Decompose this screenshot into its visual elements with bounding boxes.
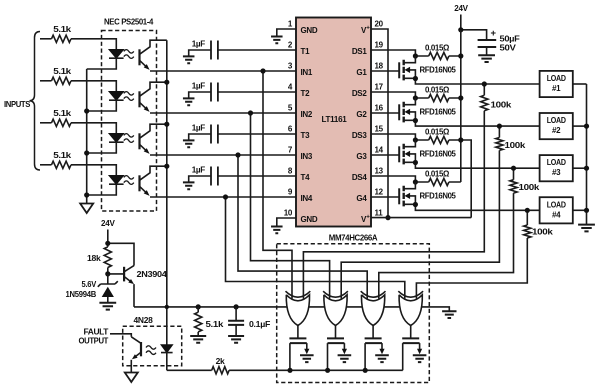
wire input 2 resistor to opto LED bbox=[71, 81, 116, 92]
resistor R14 100k feedback ch1 bbox=[303, 81, 511, 298]
optocoupler channel 1 phototransistor bbox=[140, 40, 297, 71]
svg-text:15: 15 bbox=[375, 125, 384, 134]
optocoupler channel 2 light arrows bbox=[124, 92, 134, 101]
wire fault output bbox=[110, 334, 141, 344]
wire load #2 to return rail bbox=[573, 125, 587, 127]
optocoupler box 4N28 bbox=[123, 326, 182, 366]
xnor gate U4a bbox=[286, 291, 311, 325]
svg-text:2N3904: 2N3904 bbox=[137, 269, 168, 279]
resistor R2 5.1k input bbox=[52, 66, 72, 85]
optocoupler channel 3 light arrows bbox=[124, 134, 134, 143]
svg-text:#3: #3 bbox=[552, 168, 561, 177]
node 24V top bbox=[454, 3, 468, 30]
transistor Q4 RFD16N05 ch3 bbox=[371, 140, 456, 164]
wire input 4 to resistor bbox=[40, 164, 52, 166]
NEC PS2501-4 label bbox=[104, 17, 154, 27]
svg-text:RFD16N05: RFD16N05 bbox=[420, 191, 457, 201]
svg-text:19: 19 bbox=[375, 41, 384, 50]
wire source ch4 to load #4 bbox=[415, 205, 539, 211]
wire xnor vcc rail bbox=[309, 307, 450, 311]
resistor R4 5.1k input bbox=[52, 150, 72, 169]
svg-text:50V: 50V bbox=[500, 43, 517, 53]
svg-text:11: 11 bbox=[375, 209, 384, 218]
ground 4N28 emitter bbox=[125, 373, 138, 383]
svg-text:#4: #4 bbox=[552, 210, 561, 219]
INPUTS label bbox=[4, 99, 31, 109]
wire DS4 pin to drain bbox=[371, 176, 415, 182]
wire input 3 resistor to opto LED bbox=[71, 123, 116, 134]
xnor gate 1 open-drain output bbox=[289, 326, 313, 371]
load return rail bbox=[584, 84, 589, 225]
wire IN4 to XNOR gate 4 input bbox=[226, 197, 405, 299]
svg-text:DS1: DS1 bbox=[352, 47, 368, 56]
wire input 1 resistor to opto LED bbox=[71, 39, 116, 50]
svg-text:24V: 24V bbox=[454, 3, 468, 13]
wire DS1 pin to drain bbox=[371, 50, 415, 56]
svg-text:LOAD: LOAD bbox=[547, 158, 566, 167]
svg-text:18: 18 bbox=[375, 62, 384, 71]
MM74HC266A label bbox=[329, 233, 378, 243]
resistor R13 0.015Ω sense ch4 bbox=[413, 169, 461, 186]
svg-text:G1: G1 bbox=[356, 68, 367, 77]
wire IN2 to XNOR gate 2 input bbox=[251, 113, 330, 299]
svg-text:5.1k: 5.1k bbox=[53, 24, 71, 34]
svg-text:20: 20 bbox=[375, 20, 384, 29]
svg-text:0.015Ω: 0.015Ω bbox=[425, 169, 450, 179]
resistor R1 5.1k input bbox=[52, 24, 72, 43]
svg-text:0.1µF: 0.1µF bbox=[249, 319, 270, 329]
svg-text:0.015Ω: 0.015Ω bbox=[425, 127, 450, 137]
resistor R16 100k feedback ch3 bbox=[379, 166, 540, 299]
svg-text:IN4: IN4 bbox=[301, 194, 313, 203]
svg-text:100k: 100k bbox=[491, 100, 512, 110]
svg-text:MM74HC266A: MM74HC266A bbox=[329, 233, 378, 243]
op-amp U2 LT1161 body bbox=[296, 18, 371, 227]
wire input 4 resistor to opto LED bbox=[71, 165, 116, 176]
resistor R10 0.015Ω sense ch1 bbox=[413, 43, 464, 60]
svg-text:OUTPUT: OUTPUT bbox=[79, 336, 110, 346]
resistor R20 2k bbox=[212, 356, 229, 374]
resistor R11 0.015Ω sense ch2 bbox=[413, 85, 464, 102]
svg-text:#1: #1 bbox=[552, 84, 561, 93]
node 24V lower bbox=[101, 218, 115, 247]
optocoupler U3 4N28 LED bbox=[161, 345, 173, 371]
wire input 1 to resistor bbox=[40, 38, 52, 40]
pin numbers left 1-10 bbox=[284, 20, 318, 225]
svg-text:IN2: IN2 bbox=[301, 110, 313, 119]
svg-text:T1: T1 bbox=[301, 47, 311, 56]
optocoupler channel 4 phototransistor bbox=[140, 166, 297, 197]
node source ch2 bbox=[413, 118, 418, 123]
wire IN1 to XNOR gate 1 input bbox=[263, 71, 292, 299]
svg-text:12: 12 bbox=[375, 188, 384, 197]
optocoupler U1 channel 1 LED bbox=[102, 50, 124, 70]
svg-text:5.1k: 5.1k bbox=[53, 108, 71, 118]
resistor R18 18k bbox=[87, 247, 111, 274]
transistor Q1 2N3904 bbox=[105, 266, 167, 307]
ground xnor vcc bbox=[442, 311, 456, 318]
opto collector rail bbox=[164, 40, 169, 344]
wire 5V rail bbox=[134, 304, 287, 309]
input brace bbox=[30, 32, 41, 171]
svg-text:17: 17 bbox=[375, 83, 384, 92]
optocoupler channel 2 phototransistor bbox=[140, 82, 297, 113]
optocoupler channel 1 light arrows bbox=[124, 50, 134, 59]
svg-text:1N5994B: 1N5994B bbox=[66, 289, 97, 299]
capacitor C4 1µF on T4 bbox=[183, 165, 296, 189]
optocoupler U3 4N28 phototransistor bbox=[131, 342, 141, 373]
svg-text:G3: G3 bbox=[356, 152, 367, 161]
resistor R17 100k feedback ch4 bbox=[416, 208, 553, 299]
diode D1 zener 5.6V 1N5994B bbox=[66, 274, 118, 310]
wire source ch1 to load #1 bbox=[415, 79, 539, 85]
xnor gate U4b bbox=[323, 291, 348, 325]
svg-text:100k: 100k bbox=[532, 227, 553, 237]
wire fault rail bbox=[167, 368, 403, 373]
wire source ch3 to load #3 bbox=[415, 163, 539, 169]
node IN4 junction bbox=[223, 194, 228, 199]
svg-text:1µF: 1µF bbox=[192, 123, 206, 132]
svg-text:100k: 100k bbox=[505, 140, 526, 150]
wire source ch2 to load #2 bbox=[415, 121, 539, 127]
optocoupler box PS2501-4 bbox=[102, 31, 157, 212]
optocoupler channel 3 phototransistor bbox=[140, 124, 297, 155]
node source ch1 bbox=[413, 76, 418, 81]
svg-text:RFD16N05: RFD16N05 bbox=[420, 149, 457, 159]
4N28 label bbox=[134, 315, 154, 325]
svg-text:INPUTS: INPUTS bbox=[4, 99, 31, 109]
svg-text:18k: 18k bbox=[87, 253, 101, 263]
resistor R19 5.1k pullup bbox=[190, 307, 223, 343]
svg-text:1µF: 1µF bbox=[192, 81, 206, 90]
pin numbers right 20-11 bbox=[352, 20, 384, 225]
wire collector branch bbox=[105, 241, 134, 266]
wire DS2 pin to drain bbox=[371, 92, 415, 98]
node source ch3 bbox=[413, 160, 418, 165]
transistor Q3 RFD16N05 ch2 bbox=[371, 98, 456, 122]
ground load return bbox=[578, 225, 595, 232]
optocoupler U1 channel 3 LED bbox=[102, 134, 124, 154]
svg-text:DS3: DS3 bbox=[352, 131, 368, 140]
node IN2 junction bbox=[248, 110, 253, 115]
svg-text:LT1161: LT1161 bbox=[322, 114, 348, 124]
input return rail bbox=[84, 69, 101, 204]
svg-text:2k: 2k bbox=[216, 356, 225, 366]
svg-text:T4: T4 bbox=[301, 173, 311, 182]
wire input 2 to resistor bbox=[40, 80, 52, 82]
wire 24V rail bbox=[460, 30, 462, 182]
FAULT OUTPUT label bbox=[79, 327, 110, 346]
svg-text:5.1k: 5.1k bbox=[206, 319, 224, 329]
svg-text:LOAD: LOAD bbox=[547, 200, 566, 209]
load box LOAD #4 bbox=[540, 197, 573, 223]
svg-text:+: + bbox=[366, 25, 370, 32]
resistor R3 5.1k input bbox=[52, 108, 72, 127]
node IN3 junction bbox=[235, 152, 240, 157]
svg-text:0.015Ω: 0.015Ω bbox=[425, 43, 450, 53]
transistor Q5 RFD16N05 ch4 bbox=[371, 182, 456, 206]
svg-text:LOAD: LOAD bbox=[547, 74, 566, 83]
wire pin20 V+ to pin11 bbox=[371, 29, 391, 220]
optocoupler channel 4 light arrows bbox=[124, 176, 134, 185]
svg-text:#2: #2 bbox=[552, 126, 561, 135]
svg-text:10: 10 bbox=[284, 209, 293, 218]
svg-text:24V: 24V bbox=[101, 218, 115, 228]
wire IN3 to XNOR gate 3 input bbox=[238, 155, 367, 299]
svg-text:16: 16 bbox=[375, 104, 384, 113]
svg-text:LOAD: LOAD bbox=[547, 116, 566, 125]
transistor Q2 RFD16N05 ch1 bbox=[371, 56, 456, 80]
node source ch4 bbox=[413, 202, 418, 207]
svg-text:DS2: DS2 bbox=[352, 89, 368, 98]
capacitor C1 1µF on T1 bbox=[183, 39, 296, 63]
svg-text:1µF: 1µF bbox=[192, 165, 206, 174]
optocoupler U1 channel 4 LED bbox=[102, 176, 124, 196]
load box LOAD #2 bbox=[540, 113, 573, 139]
ground pin 1 bbox=[271, 29, 296, 43]
svg-text:DS4: DS4 bbox=[352, 173, 368, 182]
wire load #1 to return rail bbox=[573, 83, 587, 85]
svg-text:5.1k: 5.1k bbox=[53, 66, 71, 76]
svg-text:RFD16N05: RFD16N05 bbox=[420, 65, 457, 75]
capacitor C5 50µF bbox=[478, 28, 520, 62]
svg-text:RFD16N05: RFD16N05 bbox=[420, 107, 457, 117]
xnor gate U4c bbox=[361, 291, 386, 325]
xnor gate 2 open-drain output bbox=[327, 326, 351, 371]
optocoupler U1 channel 2 LED bbox=[102, 92, 124, 112]
xnor gate 4 open-drain output bbox=[402, 326, 426, 371]
svg-text:NEC PS2501-4: NEC PS2501-4 bbox=[104, 17, 154, 27]
wire pin11 V+ to 24V rail bbox=[371, 140, 471, 218]
svg-text:0.015Ω: 0.015Ω bbox=[425, 85, 450, 95]
load box LOAD #3 bbox=[540, 155, 573, 181]
svg-text:G4: G4 bbox=[356, 194, 367, 203]
ground input return bbox=[80, 204, 93, 214]
wire load #3 to return rail bbox=[573, 167, 587, 169]
xnor box MM74HC266A bbox=[277, 244, 430, 383]
resistor R15 100k feedback ch2 bbox=[341, 124, 525, 299]
capacitor C6 0.1µF bbox=[228, 307, 270, 343]
capacitor C2 1µF on T2 bbox=[183, 81, 296, 105]
svg-text:1µF: 1µF bbox=[192, 39, 206, 48]
svg-text:14: 14 bbox=[375, 146, 384, 155]
svg-text:5.1k: 5.1k bbox=[53, 150, 71, 160]
ground pin 10 bbox=[271, 218, 296, 233]
wire input 3 to resistor bbox=[40, 122, 52, 124]
svg-text:13: 13 bbox=[375, 167, 384, 176]
svg-text:GND: GND bbox=[301, 26, 318, 35]
svg-text:IN3: IN3 bbox=[301, 152, 313, 161]
svg-text:GND: GND bbox=[301, 215, 318, 224]
svg-text:G2: G2 bbox=[356, 110, 367, 119]
capacitor C3 1µF on T3 bbox=[183, 123, 296, 147]
resistor R12 0.015Ω sense ch3 bbox=[413, 127, 464, 144]
svg-text:IN1: IN1 bbox=[301, 68, 313, 77]
node IN1 junction bbox=[260, 68, 265, 73]
optocoupler 4N28 light arrows bbox=[146, 346, 156, 355]
wire load #4 to return rail bbox=[573, 209, 587, 211]
wire DS3 pin to drain bbox=[371, 134, 415, 140]
svg-text:5.6V: 5.6V bbox=[82, 279, 97, 289]
svg-text:+: + bbox=[366, 214, 370, 221]
svg-text:100k: 100k bbox=[519, 182, 540, 192]
svg-text:T2: T2 bbox=[301, 89, 311, 98]
svg-text:4N28: 4N28 bbox=[134, 315, 154, 325]
wire 24V to cap bbox=[458, 27, 486, 40]
load box LOAD #1 bbox=[540, 71, 573, 97]
svg-text:+: + bbox=[491, 28, 497, 39]
svg-text:T3: T3 bbox=[301, 131, 311, 140]
xnor gate U4d bbox=[398, 291, 423, 325]
xnor gate 3 open-drain output bbox=[365, 326, 389, 371]
